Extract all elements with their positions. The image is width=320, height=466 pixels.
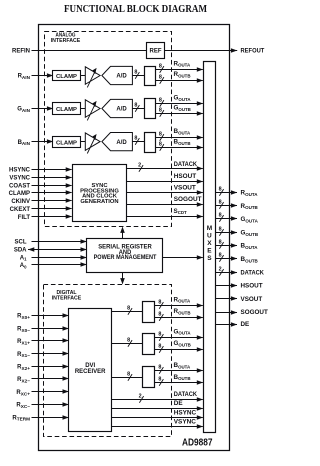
svg-text:HSOUT: HSOUT (174, 173, 196, 180)
svg-text:SDA: SDA (14, 248, 27, 254)
svg-text:8: 8 (158, 376, 161, 382)
svg-text:8: 8 (159, 107, 162, 113)
svg-text:COAST: COAST (9, 183, 30, 189)
svg-text:RX0−: RX0− (17, 326, 30, 332)
svg-text:8: 8 (134, 69, 137, 75)
svg-text:U: U (207, 233, 212, 240)
svg-text:VSYNC: VSYNC (9, 175, 30, 181)
svg-text:8: 8 (158, 364, 161, 370)
svg-text:8: 8 (219, 186, 222, 192)
svg-text:CLAMP: CLAMP (9, 191, 30, 197)
svg-text:FUNCTIONAL BLOCK DIAGRAM: FUNCTIONAL BLOCK DIAGRAM (64, 4, 207, 15)
svg-text:RAIN: RAIN (18, 74, 31, 80)
svg-text:VSYNC: VSYNC (174, 419, 196, 426)
svg-text:FILT: FILT (18, 215, 31, 221)
svg-text:A1: A1 (20, 255, 27, 261)
svg-text:A/D: A/D (116, 74, 127, 80)
svg-text:SCL: SCL (15, 240, 27, 246)
svg-text:POWER MANAGEMENT: POWER MANAGEMENT (94, 255, 157, 261)
svg-text:SOGOUT: SOGOUT (174, 196, 202, 203)
svg-text:8: 8 (219, 226, 222, 232)
svg-text:RXC−: RXC− (16, 403, 30, 409)
svg-text:DATACK: DATACK (174, 161, 198, 168)
svg-text:8: 8 (159, 63, 162, 69)
svg-text:8: 8 (127, 371, 130, 377)
svg-text:8: 8 (127, 337, 130, 343)
svg-text:RX1−: RX1− (17, 352, 30, 358)
svg-text:A/D: A/D (116, 107, 127, 113)
svg-text:VSOUT: VSOUT (241, 296, 263, 303)
svg-text:A/D: A/D (116, 140, 127, 146)
svg-text:M: M (207, 225, 212, 232)
svg-text:GENERATION: GENERATION (80, 199, 118, 205)
svg-text:8: 8 (158, 311, 161, 317)
svg-text:E: E (207, 247, 212, 254)
svg-text:INTERFACE: INTERFACE (52, 295, 82, 301)
svg-text:RTERM: RTERM (12, 415, 30, 421)
svg-text:DE: DE (241, 321, 250, 328)
svg-text:RX0+: RX0+ (17, 314, 30, 320)
svg-text:8: 8 (219, 252, 222, 258)
svg-text:HSOUT: HSOUT (241, 283, 263, 290)
svg-text:INTERFACE: INTERFACE (51, 38, 81, 44)
svg-text:DATACK: DATACK (174, 391, 198, 398)
svg-text:DE: DE (174, 400, 184, 407)
svg-text:BAIN: BAIN (18, 140, 31, 146)
svg-text:RX2+: RX2+ (17, 365, 30, 371)
svg-text:RX2−: RX2− (17, 377, 30, 383)
svg-text:CLAMP: CLAMP (56, 74, 77, 80)
svg-text:CKINV: CKINV (11, 199, 30, 205)
svg-text:CLAMP: CLAMP (56, 140, 77, 146)
svg-text:CKEXT: CKEXT (10, 207, 31, 213)
svg-text:RXC+: RXC+ (16, 390, 30, 396)
svg-text:RX1+: RX1+ (17, 339, 30, 345)
svg-text:8: 8 (134, 102, 137, 108)
svg-text:CLAMP: CLAMP (56, 107, 77, 113)
svg-text:8: 8 (158, 331, 161, 337)
svg-text:HSYNC: HSYNC (9, 168, 31, 174)
svg-text:8: 8 (159, 131, 162, 137)
svg-text:8: 8 (134, 135, 137, 141)
svg-text:8: 8 (159, 141, 162, 147)
svg-text:2: 2 (138, 162, 141, 168)
svg-text:VSOUT: VSOUT (174, 185, 196, 192)
svg-text:AD9887: AD9887 (182, 438, 213, 449)
svg-text:REFOUT: REFOUT (241, 47, 265, 54)
svg-text:SOGOUT: SOGOUT (241, 309, 268, 316)
svg-text:HSYNC: HSYNC (174, 410, 197, 417)
svg-text:X: X (207, 240, 212, 247)
svg-text:8: 8 (158, 343, 161, 349)
svg-text:GAIN: GAIN (17, 107, 30, 113)
svg-text:8: 8 (219, 199, 222, 205)
svg-text:2: 2 (219, 266, 222, 272)
svg-text:2: 2 (139, 393, 142, 399)
svg-text:S: S (207, 255, 212, 262)
svg-text:A0: A0 (20, 263, 27, 269)
svg-text:8: 8 (158, 299, 161, 305)
svg-text:REFIN: REFIN (12, 48, 30, 54)
svg-text:REF: REF (150, 48, 162, 54)
svg-text:DATACK: DATACK (241, 269, 265, 276)
svg-text:RECEIVER: RECEIVER (75, 369, 106, 375)
svg-text:8: 8 (219, 239, 222, 245)
svg-text:8: 8 (219, 212, 222, 218)
svg-text:8: 8 (159, 74, 162, 80)
svg-text:8: 8 (159, 97, 162, 103)
svg-text:8: 8 (127, 305, 130, 311)
